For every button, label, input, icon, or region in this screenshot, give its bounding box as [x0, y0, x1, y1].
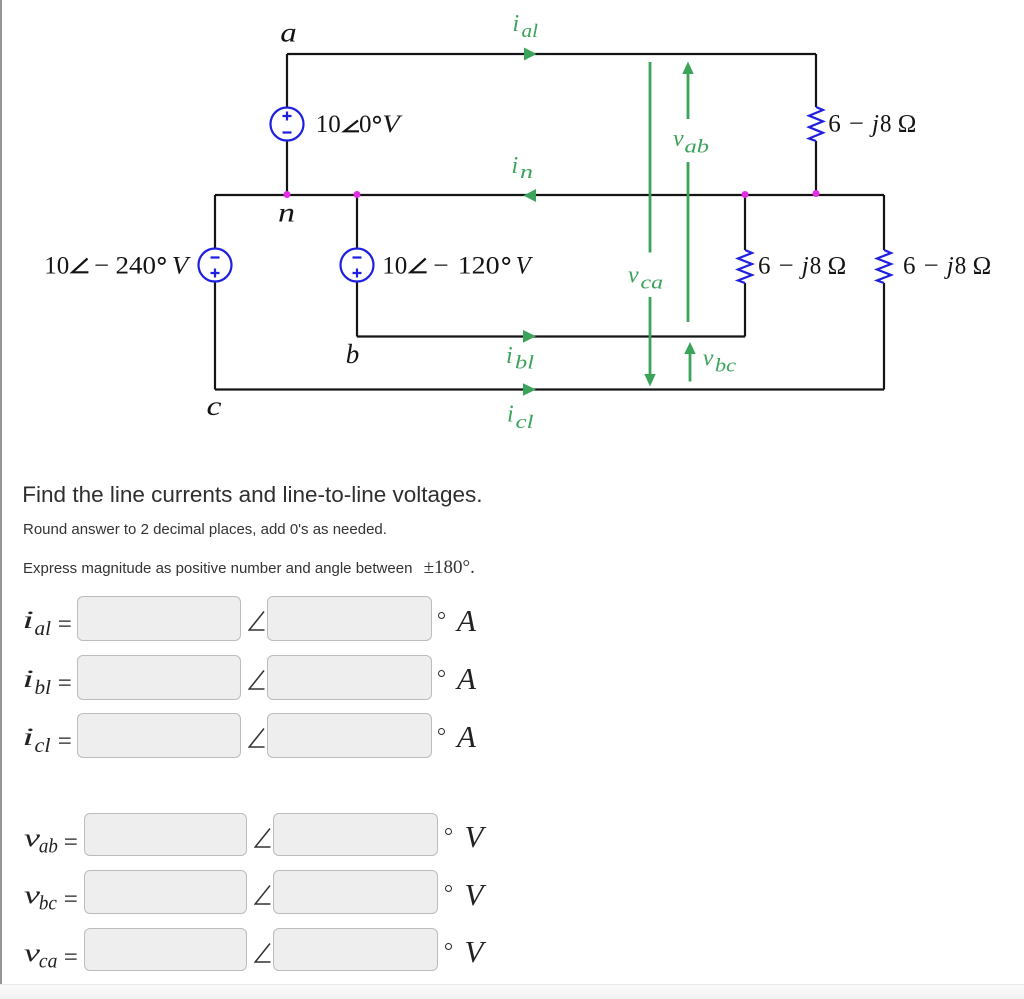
svg-text:V: V [382, 111, 403, 138]
svg-text:=: = [64, 886, 78, 913]
svg-text:Ω: Ω [973, 252, 992, 279]
svg-text:6: 6 [903, 252, 916, 279]
svg-text:i: i [22, 724, 34, 751]
svg-text:0: 0 [359, 111, 372, 138]
svg-text:c: c [207, 391, 222, 421]
svg-text:j: j [869, 111, 879, 138]
svg-text:i: i [512, 153, 519, 179]
svg-text:n: n [520, 162, 533, 183]
svg-text:i: i [22, 666, 34, 693]
svg-text:6: 6 [828, 111, 841, 138]
svg-text:=: = [58, 728, 72, 755]
svg-text:ab: ab [39, 836, 58, 857]
svg-text:bl: bl [35, 677, 52, 698]
svg-text:240: 240 [116, 252, 157, 279]
svg-text:v: v [673, 126, 684, 152]
svg-text:i: i [513, 11, 520, 37]
svg-text:v: v [703, 346, 714, 372]
svg-text:8: 8 [880, 111, 892, 138]
svg-text:=: = [64, 944, 78, 971]
svg-text:i: i [507, 402, 514, 428]
svg-text:ab: ab [685, 137, 710, 158]
svg-text:i: i [22, 607, 34, 634]
svg-text:bc: bc [39, 893, 57, 914]
svg-text:b: b [346, 339, 360, 369]
svg-text:Ω: Ω [828, 252, 847, 279]
svg-text:−: − [924, 252, 939, 279]
svg-text:cl: cl [35, 735, 51, 756]
svg-text:V: V [516, 252, 534, 279]
svg-text:−: − [779, 252, 794, 279]
svg-text:10: 10 [44, 252, 69, 279]
svg-text:i: i [506, 343, 513, 369]
svg-text:8: 8 [955, 252, 967, 279]
svg-text:al: al [522, 21, 539, 42]
svg-text:v: v [628, 263, 639, 289]
svg-text:8: 8 [810, 252, 822, 279]
svg-text:j: j [944, 252, 954, 279]
svg-text:120: 120 [458, 252, 500, 279]
svg-text:Ω: Ω [898, 111, 917, 138]
svg-text:−: − [94, 252, 109, 279]
svg-text:cl: cl [516, 412, 534, 433]
svg-text:=: = [64, 829, 78, 856]
svg-text:ca: ca [39, 951, 58, 972]
svg-text:−: − [849, 111, 864, 138]
svg-text:=: = [58, 611, 72, 638]
svg-text:bc: bc [715, 355, 737, 376]
svg-text:−: − [433, 252, 449, 279]
svg-text:a: a [280, 18, 297, 48]
svg-text:j: j [799, 252, 809, 279]
svg-text:al: al [35, 619, 52, 640]
svg-text:=: = [58, 670, 72, 697]
svg-text:V: V [172, 252, 191, 279]
svg-text:10: 10 [382, 252, 407, 279]
svg-text:6: 6 [758, 252, 771, 279]
svg-text:n: n [278, 198, 295, 228]
svg-text:10: 10 [316, 111, 341, 138]
svg-text:bl: bl [515, 353, 534, 374]
svg-text:ca: ca [641, 273, 664, 294]
